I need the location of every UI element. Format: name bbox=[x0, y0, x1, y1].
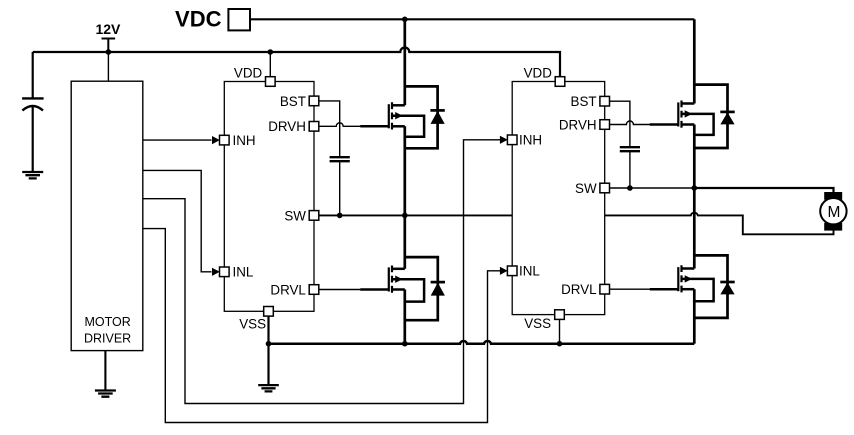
body diode D4 bbox=[694, 255, 734, 318]
pin BST2 bbox=[600, 96, 610, 106]
junction dot SW1/cap bbox=[337, 213, 343, 219]
wire SW2 node to motor top bbox=[609, 187, 694, 189]
pin BST1 bbox=[309, 96, 319, 106]
arrowhead into INL1 bbox=[212, 268, 220, 276]
motor M terminals bbox=[824, 192, 842, 200]
ground below motor driver bbox=[104, 351, 106, 391]
junction dot VDC/left rail bbox=[402, 17, 408, 23]
wire VSS1 to ground rail bbox=[267, 311, 269, 385]
right half-bridge VDC rail bbox=[693, 19, 696, 103]
junction dot Q2 source/ground rail bbox=[402, 341, 408, 347]
wire BST1 to bootstrap cap bbox=[319, 101, 340, 157]
svg-text:DRVH: DRVH bbox=[559, 117, 597, 132]
svg-text:DRVH: DRVH bbox=[268, 119, 306, 134]
wire BST2 to bootstrap cap bbox=[609, 101, 630, 147]
wire 12V rail to motor driver VDD bbox=[107, 52, 109, 81]
pin VDD2 bbox=[555, 77, 565, 87]
IC U2 gate driver box bbox=[512, 82, 605, 315]
wire DRVL2 to Q4 gate bbox=[609, 288, 650, 290]
transistor Q1 high-side left MOSFET bbox=[389, 102, 424, 136]
svg-text:12V: 12V bbox=[95, 21, 121, 37]
svg-text:M: M bbox=[827, 204, 840, 221]
svg-text:BST: BST bbox=[571, 94, 597, 109]
ground below VSS1 bbox=[258, 385, 279, 391]
svg-text:SW: SW bbox=[575, 181, 597, 196]
IC U1 gate driver box bbox=[224, 82, 314, 312]
svg-text:INH: INH bbox=[233, 133, 256, 148]
junction dot SW2/rail bbox=[692, 185, 698, 191]
pin DRVL2 bbox=[600, 284, 610, 294]
svg-text:VDD: VDD bbox=[524, 66, 553, 81]
wire SW1 node across to motor bottom (runs behind IC U2) bbox=[319, 213, 834, 235]
transistor Q4 low-side right MOSFET bbox=[678, 265, 713, 301]
svg-text:VDD: VDD bbox=[234, 66, 263, 81]
svg-text:DRIVER: DRIVER bbox=[84, 331, 131, 345]
right half-bridge SW rail bbox=[693, 125, 696, 269]
transistor Q2 low-side left MOSFET bbox=[389, 266, 424, 302]
wire VDD1 stub to 12V rail bbox=[269, 52, 271, 82]
right low-side source to ground rail bbox=[693, 289, 696, 344]
pin VSS2 bbox=[555, 310, 565, 320]
motor M body bbox=[820, 198, 846, 224]
left low-side source to ground rail bbox=[403, 290, 406, 344]
svg-text:DRVL: DRVL bbox=[270, 282, 305, 297]
VDC supply wire to both half-bridges bbox=[250, 18, 694, 20]
12V supply bar symbol bbox=[102, 39, 116, 53]
svg-text:INL: INL bbox=[519, 264, 540, 279]
pin INL2 bbox=[507, 266, 517, 276]
junction dot VSS2/ground rail bbox=[557, 341, 563, 347]
svg-text:BST: BST bbox=[280, 94, 306, 109]
wire DRVH1 to Q1 gate (hops over BST wire) bbox=[319, 123, 362, 127]
capacitor C1 input bulk cap bbox=[32, 52, 34, 98]
wire INL1 from motor driver bbox=[143, 170, 212, 271]
svg-text:VDC: VDC bbox=[175, 7, 222, 32]
pin DRVH1 bbox=[309, 122, 319, 132]
junction dot 12V/VDD1 bbox=[268, 49, 274, 55]
capacitor C2 bootstrap left bbox=[330, 156, 350, 158]
svg-text:INH: INH bbox=[519, 133, 542, 148]
pin INL1 bbox=[220, 267, 230, 277]
arrowhead into INL2 bbox=[500, 267, 508, 275]
body diode D3 bbox=[694, 85, 734, 148]
pin SW2 bbox=[600, 183, 610, 193]
wire INL2 routing from motor driver (bottom run) bbox=[143, 229, 505, 423]
svg-text:DRVL: DRVL bbox=[561, 282, 596, 297]
ground below capacitor C1 bbox=[22, 172, 43, 178]
left half-bridge VDC rail bbox=[403, 19, 406, 105]
pin VSS1 bbox=[264, 307, 274, 317]
junction dot SW2/cap bbox=[627, 185, 633, 191]
transistor Q3 high-side right MOSFET bbox=[678, 101, 713, 135]
svg-text:VSS: VSS bbox=[239, 316, 266, 331]
svg-text:VSS: VSS bbox=[524, 316, 551, 331]
pin DRVL1 bbox=[309, 285, 319, 295]
pin INH2 bbox=[507, 135, 517, 145]
ground rail (source bus, hops over INH2/INL2 runs) bbox=[269, 341, 695, 344]
wire INH2 routing from motor driver (bottom run) bbox=[143, 140, 505, 404]
motor driver block bbox=[71, 81, 143, 350]
pin INH1 bbox=[220, 135, 230, 145]
left half-bridge SW rail bbox=[403, 126, 406, 268]
capacitor C3 bootstrap right bbox=[620, 146, 640, 148]
svg-text:MOTOR: MOTOR bbox=[84, 315, 130, 329]
wire DRVH2 to Q3 gate (hops over BST wire) bbox=[609, 121, 650, 124]
junction dot SW1/rail bbox=[402, 213, 408, 219]
wire bootstrap cap to SW2 node bbox=[629, 151, 631, 188]
svg-text:INL: INL bbox=[233, 265, 254, 280]
wire DRVL1 to Q2 gate bbox=[319, 289, 362, 291]
body diode D1 bbox=[405, 86, 445, 148]
wire bootstrap cap to SW1 node bbox=[339, 161, 341, 215]
pin VDD1 bbox=[266, 77, 276, 87]
wire VSS2 to ground rail bbox=[559, 315, 561, 344]
body diode D2 bbox=[405, 257, 445, 320]
junction dot 12V/driver bbox=[106, 49, 112, 55]
svg-text:SW: SW bbox=[284, 208, 306, 223]
wire INH1 from motor driver bbox=[143, 139, 212, 141]
arrowhead into INH2 bbox=[500, 136, 508, 144]
VDC terminal box bbox=[228, 9, 250, 30]
junction dot VSS1/ground rail bbox=[266, 341, 272, 347]
pin DRVH2 bbox=[600, 120, 610, 130]
12V supply rail wire bbox=[33, 48, 560, 78]
arrowhead into INH1 bbox=[212, 136, 220, 144]
pin SW1 bbox=[309, 211, 319, 221]
